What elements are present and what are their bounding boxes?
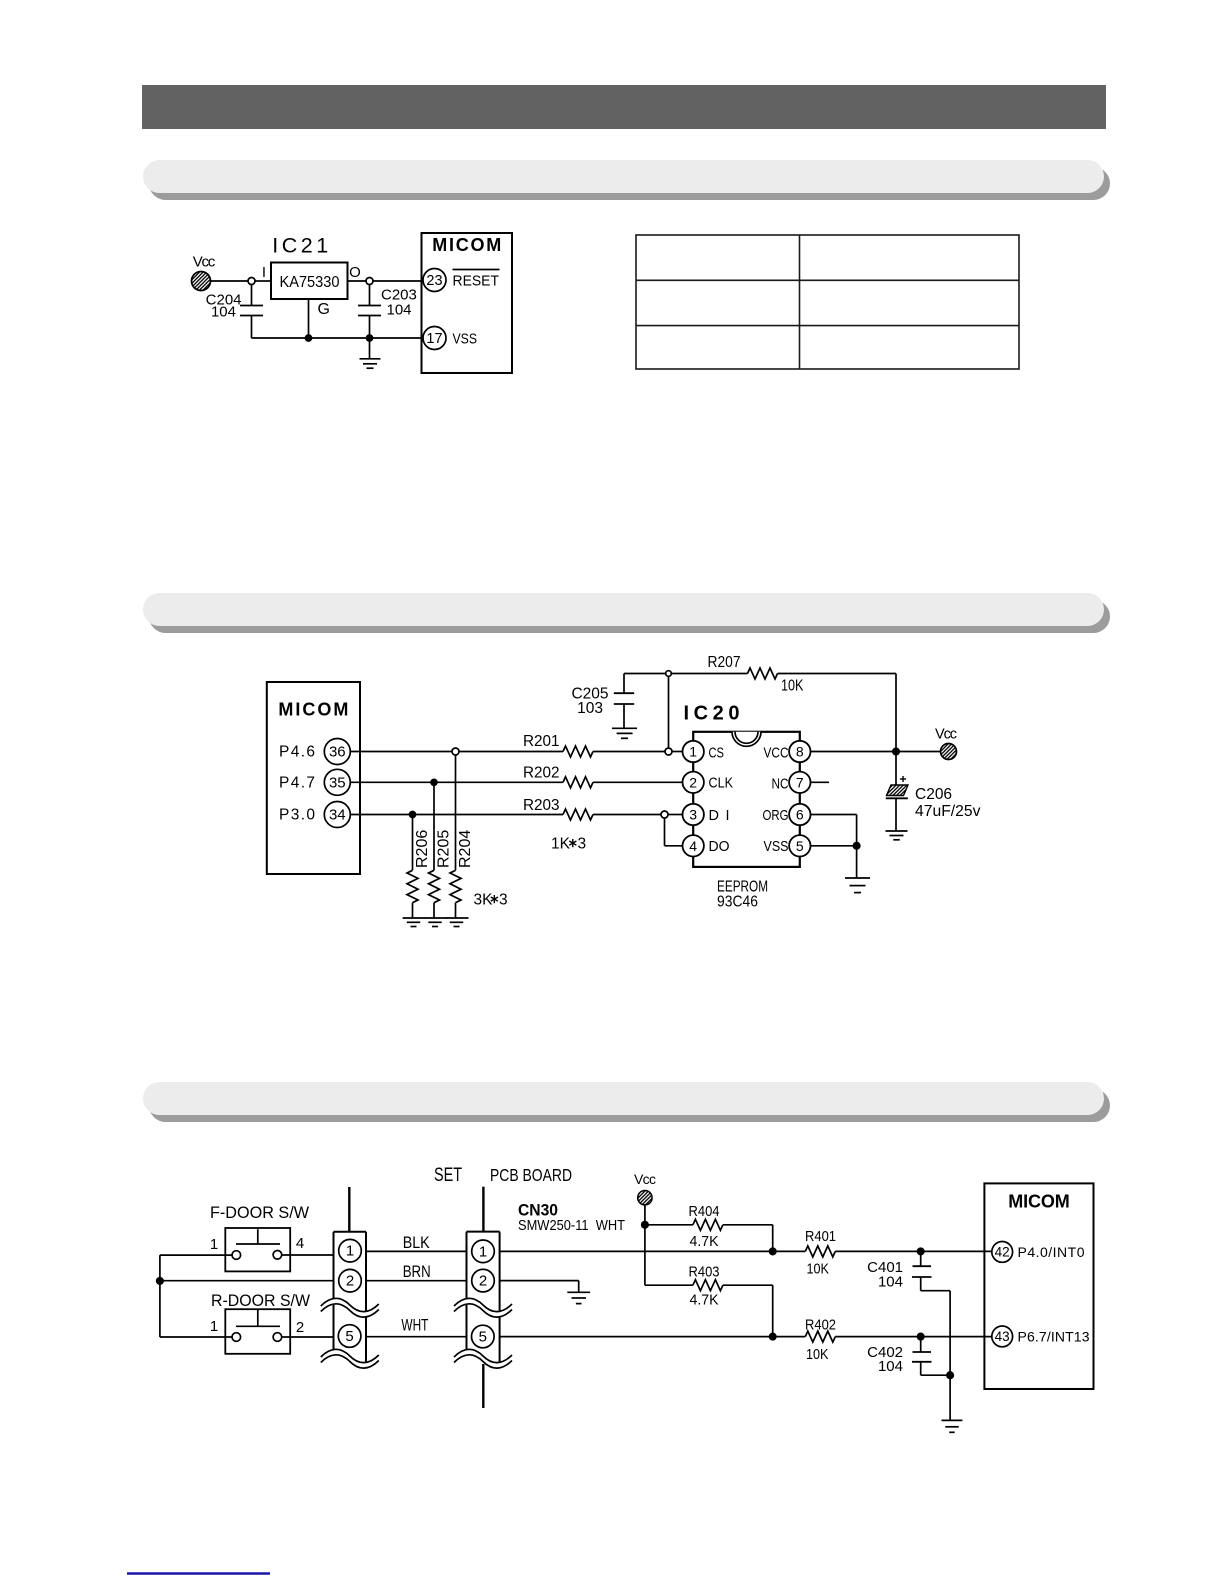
svg-text:I: I <box>262 264 266 281</box>
svg-text:VSS: VSS <box>764 839 789 855</box>
svg-text:1: 1 <box>210 1236 218 1253</box>
svg-text:23: 23 <box>426 273 442 289</box>
svg-text:34: 34 <box>329 807 346 824</box>
svg-text:5: 5 <box>796 838 804 854</box>
svg-text:R-DOOR S/W: R-DOOR S/W <box>211 1292 310 1310</box>
svg-text:R404: R404 <box>689 1203 720 1220</box>
svg-text:4.7K: 4.7K <box>690 1233 719 1250</box>
svg-text:3: 3 <box>578 836 587 853</box>
svg-text:IC21: IC21 <box>272 234 331 258</box>
svg-text:2: 2 <box>689 774 697 790</box>
svg-text:SMW250-11 WHT: SMW250-11 WHT <box>518 1218 625 1234</box>
svg-text:MICOM: MICOM <box>1008 1192 1070 1212</box>
svg-text:Vcc: Vcc <box>935 727 957 743</box>
svg-text:PCB BOARD: PCB BOARD <box>490 1165 572 1185</box>
svg-text:2: 2 <box>296 1319 304 1336</box>
svg-text:CN30: CN30 <box>518 1202 558 1220</box>
svg-text:43: 43 <box>995 1329 1010 1344</box>
svg-text:42: 42 <box>995 1244 1010 1259</box>
svg-text:BRN: BRN <box>403 1263 431 1281</box>
svg-text:2: 2 <box>479 1273 487 1290</box>
svg-text:R402: R402 <box>805 1316 836 1333</box>
svg-text:103: 103 <box>577 700 603 717</box>
svg-text:P4.6: P4.6 <box>279 744 315 761</box>
svg-text:DO: DO <box>709 839 730 855</box>
svg-text:Vcc: Vcc <box>634 1171 656 1187</box>
svg-text:G: G <box>318 301 330 318</box>
svg-text:10K: 10K <box>807 1261 830 1278</box>
svg-text:104: 104 <box>387 302 412 319</box>
svg-text:104: 104 <box>211 304 236 321</box>
svg-text:36: 36 <box>329 744 346 761</box>
svg-text:P3.0: P3.0 <box>279 807 315 824</box>
svg-text:ORG: ORG <box>763 808 789 824</box>
svg-text:1: 1 <box>210 1318 218 1335</box>
svg-text:1: 1 <box>689 744 697 760</box>
svg-text:10K: 10K <box>781 678 804 695</box>
svg-text:7: 7 <box>796 774 804 790</box>
svg-text:R203: R203 <box>523 797 560 814</box>
svg-text:KA75330: KA75330 <box>280 274 340 291</box>
svg-text:4: 4 <box>296 1235 304 1252</box>
svg-text:P4.7: P4.7 <box>279 774 315 791</box>
svg-text:O: O <box>349 264 361 281</box>
svg-text:104: 104 <box>878 1358 903 1375</box>
svg-text:P6.7/INT13: P6.7/INT13 <box>1018 1329 1090 1345</box>
svg-text:BLK: BLK <box>403 1234 430 1252</box>
svg-text:6: 6 <box>796 807 804 823</box>
svg-text:SET: SET <box>434 1165 462 1186</box>
svg-text:1: 1 <box>479 1243 487 1260</box>
svg-text:MICOM: MICOM <box>432 235 501 255</box>
svg-text:17: 17 <box>426 331 442 347</box>
svg-text:93C46: 93C46 <box>717 894 758 911</box>
svg-text:3: 3 <box>689 807 697 823</box>
svg-text:8: 8 <box>796 744 804 760</box>
svg-text:R204: R204 <box>457 830 474 868</box>
svg-text:3: 3 <box>499 892 508 909</box>
svg-text:WHT: WHT <box>401 1317 428 1335</box>
svg-text:3K: 3K <box>474 892 494 909</box>
svg-text:5: 5 <box>345 1328 353 1345</box>
svg-text:R403: R403 <box>689 1264 720 1281</box>
svg-text:35: 35 <box>329 774 346 791</box>
svg-text:R202: R202 <box>523 765 560 782</box>
svg-text:VSS: VSS <box>453 331 478 348</box>
svg-text:MICOM: MICOM <box>278 700 348 720</box>
svg-text:2: 2 <box>346 1273 354 1290</box>
svg-text:10K: 10K <box>806 1346 829 1363</box>
svg-text:R206: R206 <box>414 830 431 868</box>
svg-text:1: 1 <box>346 1243 354 1260</box>
svg-text:IC20: IC20 <box>684 703 740 725</box>
svg-text:C206: C206 <box>915 786 952 803</box>
svg-text:47uF/25v: 47uF/25v <box>915 803 981 820</box>
svg-text:DI: DI <box>709 808 730 824</box>
svg-text:CLK: CLK <box>709 776 734 792</box>
svg-text:R401: R401 <box>805 1228 836 1245</box>
svg-text:F-DOOR S/W: F-DOOR S/W <box>210 1204 309 1222</box>
svg-text:1K: 1K <box>551 836 571 853</box>
svg-text:CS: CS <box>709 746 725 762</box>
svg-text:5: 5 <box>479 1329 487 1346</box>
svg-text:R205: R205 <box>436 830 453 868</box>
svg-text:4: 4 <box>689 838 697 854</box>
svg-text:NC: NC <box>772 777 789 793</box>
svg-text:RESET: RESET <box>453 273 500 290</box>
svg-text:4.7K: 4.7K <box>690 1292 719 1309</box>
svg-text:R207: R207 <box>708 654 741 671</box>
svg-text:Vcc: Vcc <box>193 254 216 271</box>
svg-text:104: 104 <box>878 1273 903 1290</box>
svg-text:P4.0/INT0: P4.0/INT0 <box>1018 1244 1085 1260</box>
svg-text:R201: R201 <box>523 733 560 750</box>
svg-text:VCC: VCC <box>764 746 789 762</box>
